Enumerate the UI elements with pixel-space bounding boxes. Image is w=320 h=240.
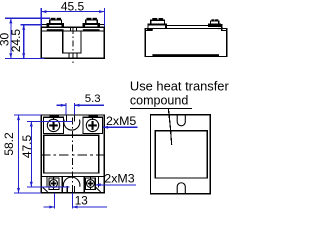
front view body <box>41 27 104 58</box>
dimension 58.2 <box>14 115 41 193</box>
top view divider line <box>41 175 104 177</box>
M5 terminal box right <box>83 116 103 133</box>
terminal screw T2 (front right) <box>83 18 99 28</box>
terminal screw T3 (side M5) <box>148 18 167 29</box>
front view center line <box>72 28 74 65</box>
svg-text:58.2: 58.2 <box>2 132 16 156</box>
front view left cover rim <box>41 24 47 27</box>
side view body <box>145 29 227 57</box>
svg-text:47.5: 47.5 <box>20 134 34 158</box>
terminal recess shading left <box>47 29 64 31</box>
dimension 13 <box>44 193 107 209</box>
front view right cover rim <box>99 24 104 27</box>
wire entry wall right <box>95 176 100 192</box>
svg-text:compound: compound <box>130 94 188 108</box>
svg-text:5.3: 5.3 <box>85 93 101 105</box>
label 2xM5 leader <box>103 126 138 129</box>
terminal screw T4 (side M3) <box>209 19 223 29</box>
M5 terminal box left <box>44 116 64 133</box>
top view mounting slot (top) <box>64 115 80 130</box>
top view body <box>41 115 104 193</box>
bottom view notch top <box>177 115 185 126</box>
terminal recess shading right <box>83 29 100 31</box>
bottom compartment wall left <box>61 176 63 193</box>
top view horizontal center line <box>41 154 105 156</box>
svg-text:2xM3: 2xM3 <box>104 171 134 185</box>
M3 terminal box right <box>86 177 96 190</box>
dimension 5.3 <box>57 103 104 115</box>
bottom view notch bottom <box>177 183 185 194</box>
top view mounting slot (bottom) <box>63 177 80 193</box>
bottom view body <box>151 115 211 194</box>
dimension 30 <box>5 18 50 58</box>
top view label area rect <box>44 135 99 173</box>
label 2xM3 leader <box>96 183 137 186</box>
dimension 47.5 <box>27 121 72 187</box>
svg-text:Use heat transfer: Use heat transfer <box>130 79 229 94</box>
top view vertical center line <box>72 118 74 197</box>
side view left joint <box>145 29 153 31</box>
wire entry wall left <box>43 176 48 192</box>
side view raised cover strip <box>166 25 227 30</box>
terminal screw T1 (front left) <box>47 18 63 28</box>
front view center recess <box>63 27 81 58</box>
note underline <box>130 107 192 109</box>
side view baseplate <box>152 54 219 56</box>
svg-text:2xM5: 2xM5 <box>106 114 136 128</box>
dimension 45.5 <box>41 8 104 27</box>
bottom view heat transfer area <box>155 131 207 178</box>
svg-text:24.5: 24.5 <box>9 29 23 53</box>
bottom compartment wall right <box>83 176 85 193</box>
dimension 24.5 <box>20 25 41 59</box>
M3 terminal box left <box>49 177 59 190</box>
svg-text:13: 13 <box>75 195 88 208</box>
svg-text:45.5: 45.5 <box>61 0 85 13</box>
note leader <box>168 108 171 145</box>
